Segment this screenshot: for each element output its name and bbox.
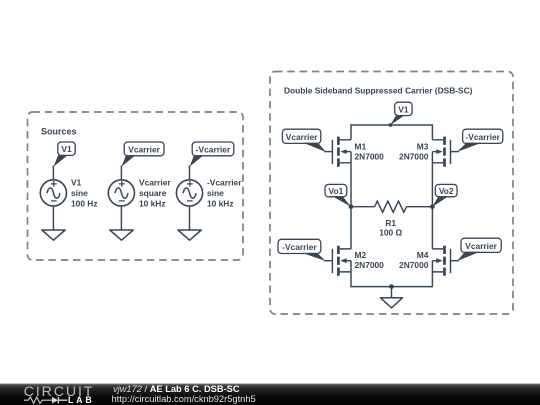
label M1 2N7000 <box>355 142 385 162</box>
svg-text:Sources: Sources <box>41 127 77 137</box>
svg-text:http://circuitlab.com/cknb92r5: http://circuitlab.com/cknb92r5gtnh5 <box>112 394 256 404</box>
label M4 2N7000 <box>399 250 429 270</box>
svg-text:-Vcarrier: -Vcarrier <box>207 178 242 188</box>
svg-text:sine: sine <box>207 188 224 198</box>
svg-text:Vcarrier: Vcarrier <box>139 178 171 188</box>
wire: Vo1 down to M2 drain <box>350 207 352 249</box>
label M3 2N7000 <box>399 142 429 162</box>
value label R1 100 Ohm <box>379 218 402 238</box>
wire: M2 gate <box>324 260 332 262</box>
footer bar <box>0 384 540 405</box>
svg-text:Double Sideband Suppressed Car: Double Sideband Suppressed Carrier (DSB-… <box>284 86 473 96</box>
node flag Vcarrier (sources) <box>122 142 164 167</box>
wire: top rail <box>351 125 432 140</box>
node flag V1 (sources) <box>54 142 76 167</box>
junction node Vo1 <box>349 204 354 209</box>
svg-text:100 Hz: 100 Hz <box>71 198 98 208</box>
svg-text:10 kHz: 10 kHz <box>207 198 234 208</box>
svg-text:10 kHz: 10 kHz <box>139 198 166 208</box>
svg-text:vjw172 / AE Lab 6 C. DSB-SC: vjw172 / AE Lab 6 C. DSB-SC <box>113 384 240 394</box>
svg-text:V1: V1 <box>398 104 409 114</box>
label: Double Sideband Suppressed Carrier (DSB-SC) <box>284 86 473 96</box>
svg-text:-Vcarrier: -Vcarrier <box>282 242 317 252</box>
svg-text:Vo1: Vo1 <box>329 186 344 196</box>
svg-text:Vcarrier: Vcarrier <box>128 144 160 154</box>
svg-text:100 Ω: 100 Ω <box>379 227 402 237</box>
value label V1 sine 100 Hz <box>71 178 98 209</box>
wire: V1 flag to source <box>52 166 54 181</box>
svg-text:LAB: LAB <box>68 395 94 405</box>
node flag -Vcarrier (M3 gate) <box>457 129 503 152</box>
wire: resistor to Vo2 <box>407 206 433 208</box>
svg-text:M4: M4 <box>417 250 429 260</box>
svg-text:M2: M2 <box>355 250 367 260</box>
wire: -Vcarrier source to ground <box>189 206 191 230</box>
svg-text:V1: V1 <box>71 178 82 188</box>
node flag Vcarrier (M4 gate) <box>457 238 501 261</box>
svg-text:2N7000: 2N7000 <box>399 151 429 161</box>
ground (-Vcarrier branch) <box>178 230 201 240</box>
svg-text:M3: M3 <box>417 142 429 152</box>
enclosure: Sources box <box>28 112 244 260</box>
svg-text:R1: R1 <box>385 218 396 228</box>
ground (DSB) <box>381 298 403 308</box>
footer text: title <box>113 384 240 394</box>
svg-text:2N7000: 2N7000 <box>355 260 385 270</box>
wire: Vo1 to resistor <box>351 206 375 208</box>
voltage source V2 (Vcarrier) <box>108 180 134 206</box>
svg-text:Vcarrier: Vcarrier <box>286 132 318 142</box>
svg-text:-Vcarrier: -Vcarrier <box>196 144 231 154</box>
resistor R1 <box>375 201 407 212</box>
svg-text:sine: sine <box>71 188 88 198</box>
node flag V1 (top of DSB) <box>389 102 413 127</box>
svg-text:-Vcarrier: -Vcarrier <box>465 132 500 142</box>
wire: M3 gate <box>451 151 459 153</box>
svg-text:M1: M1 <box>355 142 367 152</box>
label: Sources <box>41 127 77 137</box>
svg-text:Vo2: Vo2 <box>439 186 454 196</box>
svg-text:2N7000: 2N7000 <box>399 260 429 270</box>
svg-text:V1: V1 <box>61 144 72 154</box>
ground (Vcarrier branch) <box>110 230 133 240</box>
wire: M3 source down to Vo2 <box>431 163 433 207</box>
wire: Vcarrier flag to source <box>120 166 122 181</box>
wire: rail to ground <box>391 287 393 298</box>
svg-text:2N7000: 2N7000 <box>355 151 385 161</box>
wire: Vcarrier source to ground <box>120 206 122 230</box>
node flag Vcarrier (M1 gate) <box>282 129 325 152</box>
wire: -Vcarrier flag to source <box>189 166 191 181</box>
svg-text:square: square <box>139 188 167 198</box>
node flag Vo1 <box>325 184 351 207</box>
voltage source V1 <box>40 180 66 206</box>
node flag -Vcarrier (sources) <box>190 142 234 167</box>
voltage source V3 (-Vcarrier) <box>176 180 202 206</box>
svg-text:Vcarrier: Vcarrier <box>465 241 497 251</box>
value label -Vcarrier sine 10 kHz <box>207 178 242 209</box>
wire: bottom rail <box>351 272 432 287</box>
node flag Vo2 <box>432 184 457 207</box>
wire: M1 gate <box>324 151 332 153</box>
wire: V1 source to ground <box>52 206 54 230</box>
value label Vcarrier square 10 kHz <box>139 178 171 209</box>
footer text: url <box>112 394 256 404</box>
node flag -Vcarrier (M2 gate) <box>278 239 326 261</box>
enclosure: DSB-SC box <box>270 72 513 315</box>
junction node (ground) <box>389 284 394 289</box>
label M2 2N7000 <box>355 250 385 270</box>
wire: M4 gate <box>451 260 459 262</box>
wire: Vo2 down to M4 drain <box>431 207 433 249</box>
ground (V1 branch) <box>42 230 65 240</box>
wire: M1 source down to Vo1 <box>350 163 352 207</box>
transistor M1 <box>332 137 351 167</box>
transistor M3 <box>432 137 450 167</box>
transistor M2 <box>332 246 351 276</box>
transistor M4 <box>432 246 450 276</box>
logo: CIRCUIT LAB <box>24 384 95 405</box>
junction node Vo2 <box>430 204 435 209</box>
